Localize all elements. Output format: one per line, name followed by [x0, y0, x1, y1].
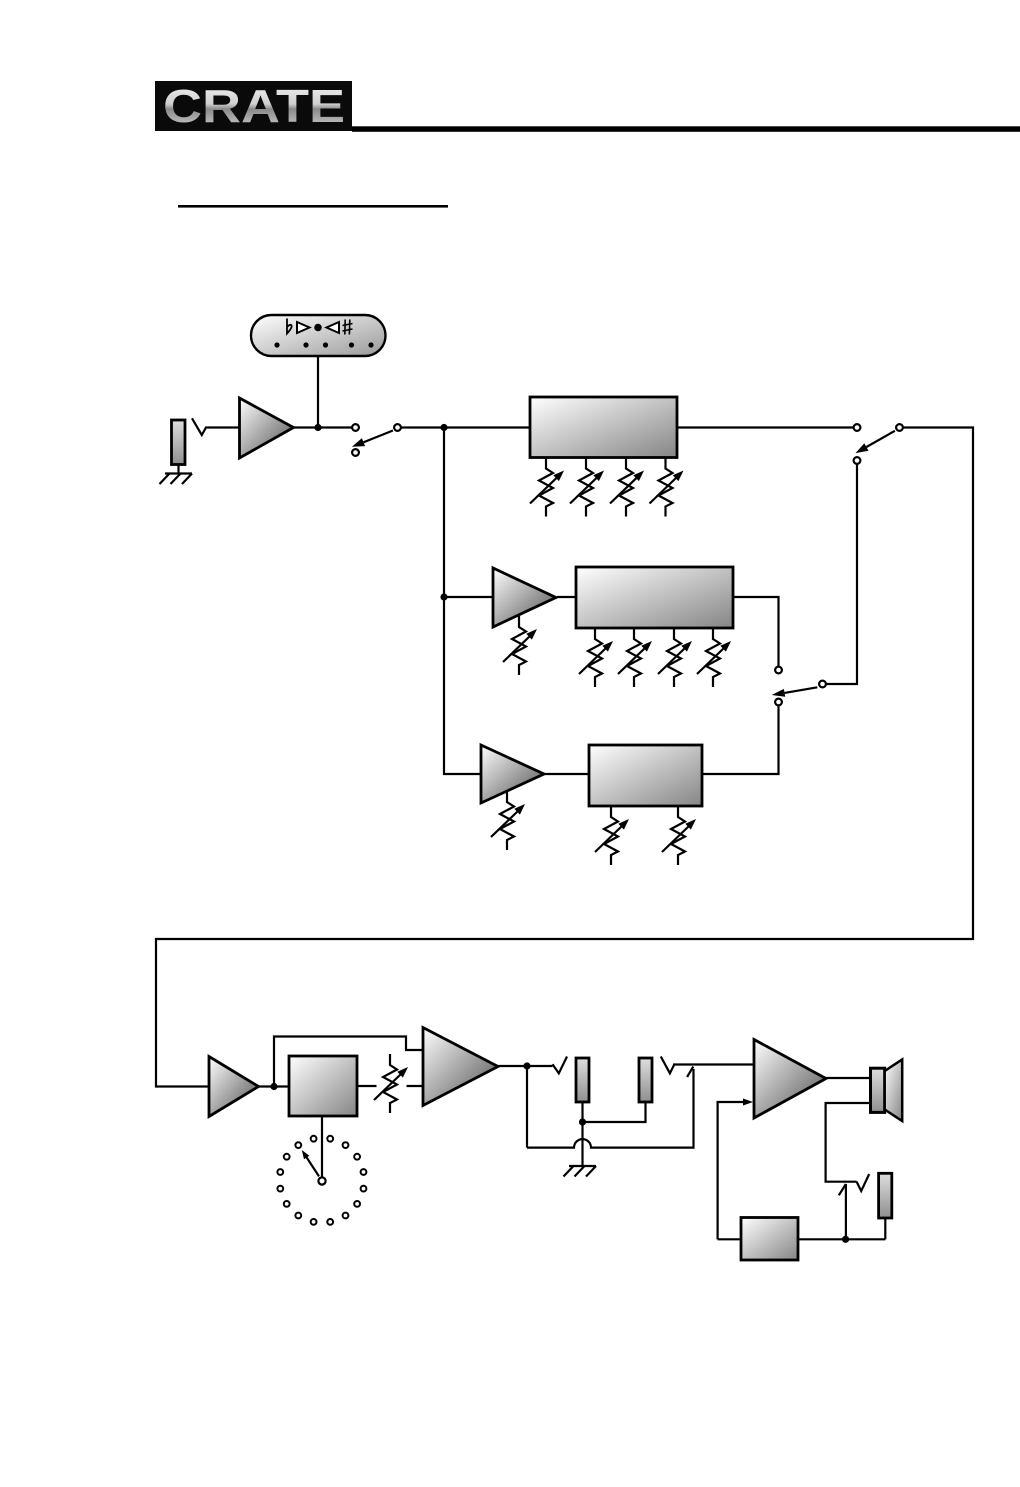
svg-text:CRATE: CRATE: [163, 81, 345, 132]
